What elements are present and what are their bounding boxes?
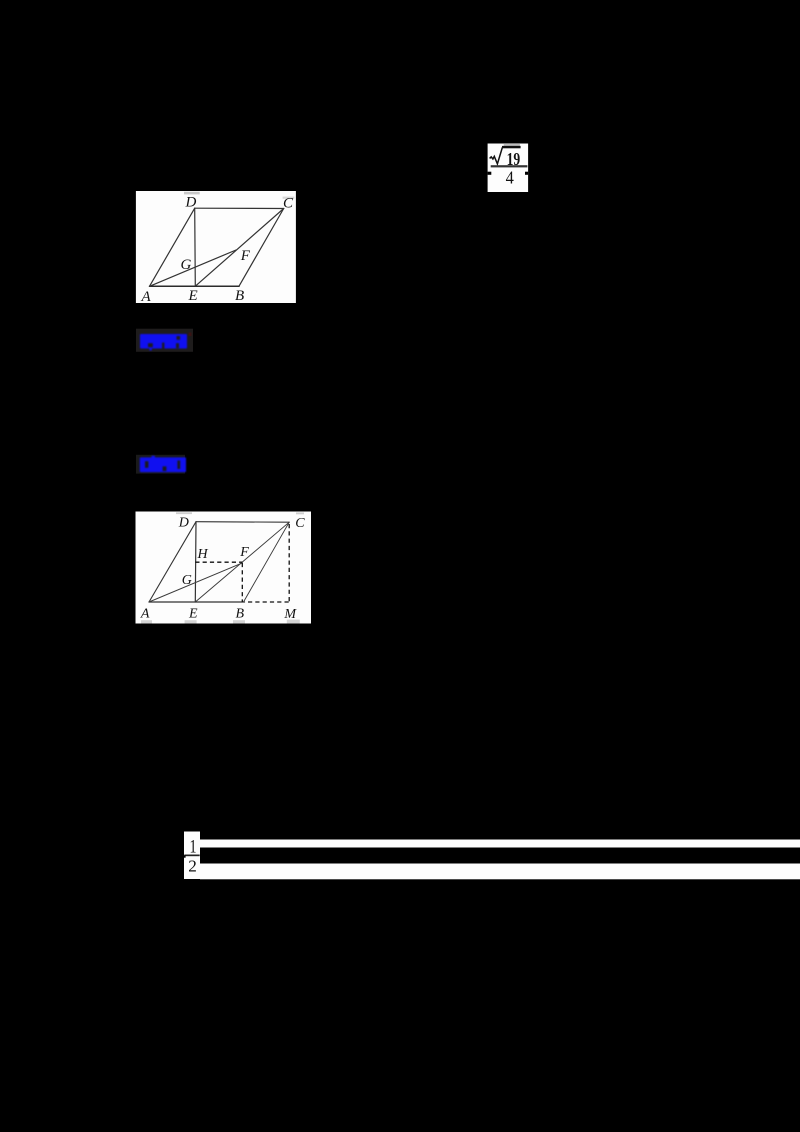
dark strip behind blue tag 1 bbox=[136, 329, 193, 352]
gray smudge below B2 bbox=[233, 620, 245, 623]
dashed FB bbox=[241, 563, 243, 602]
radical check bbox=[490, 147, 503, 164]
blue tag 2 bbox=[136, 455, 186, 474]
segment EC bbox=[195, 209, 283, 287]
side DC bbox=[195, 207, 284, 209]
long top bar bbox=[200, 840, 800, 848]
dark red artifact bbox=[189, 333, 192, 337]
svg-text:C: C bbox=[283, 196, 294, 212]
radical vinculum bbox=[502, 146, 521, 148]
gray strip above vinculum bbox=[504, 144, 520, 146]
blue glyph blob 2 bbox=[140, 456, 186, 472]
blue glyph blob 1 bbox=[140, 334, 187, 350]
white patch 1/2 bbox=[184, 832, 200, 880]
segment AF 2 bbox=[149, 563, 242, 602]
side CB bbox=[239, 209, 284, 287]
svg-text:F: F bbox=[240, 248, 251, 264]
gray smudge above C2 bbox=[296, 512, 304, 514]
gray smudge above D bbox=[184, 192, 200, 195]
svg-text:C: C bbox=[295, 516, 305, 531]
figure 1 white box bbox=[136, 191, 296, 303]
svg-text:G: G bbox=[182, 573, 192, 588]
gray smudge below A2 bbox=[141, 620, 152, 623]
svg-text:F: F bbox=[239, 545, 249, 560]
formula patch sqrt(19)/4 bbox=[488, 144, 528, 193]
segment EC 2 bbox=[195, 522, 289, 602]
long bottom bar bbox=[200, 864, 800, 880]
segment BC 2 bbox=[244, 522, 290, 602]
left notch bbox=[488, 172, 492, 175]
dark strip behind blue tag 2 bbox=[136, 455, 185, 474]
figure 2 white box bbox=[136, 512, 312, 624]
svg-text:A: A bbox=[140, 607, 150, 622]
svg-text:E: E bbox=[188, 288, 198, 304]
dashed CM bbox=[288, 524, 290, 602]
svg-text:E: E bbox=[188, 607, 198, 622]
white patch bbox=[488, 144, 528, 193]
fraction bar 1/2 bbox=[184, 855, 199, 857]
svg-text:B: B bbox=[236, 607, 245, 622]
side AD 2 bbox=[149, 522, 196, 602]
svg-text:D: D bbox=[185, 195, 197, 211]
side AD bbox=[150, 208, 195, 286]
svg-text:1: 1 bbox=[190, 837, 197, 858]
left tick bbox=[184, 855, 186, 857]
dashed BM bbox=[248, 601, 289, 603]
svg-text:4: 4 bbox=[506, 168, 514, 188]
svg-text:B: B bbox=[235, 288, 244, 304]
gray smudge below M2 bbox=[287, 620, 300, 624]
right notch bbox=[525, 172, 528, 175]
fraction 1/2 line bbox=[184, 832, 800, 880]
segment DE bbox=[194, 208, 197, 286]
segment AF bbox=[150, 250, 237, 286]
svg-text:D: D bbox=[178, 516, 189, 531]
side AB 2 bbox=[149, 601, 245, 603]
svg-text:M: M bbox=[283, 607, 297, 622]
dashed HF bbox=[195, 561, 242, 563]
gray smudge below E2 bbox=[185, 620, 197, 623]
side AB bbox=[150, 285, 240, 287]
svg-text:2: 2 bbox=[188, 856, 197, 875]
figure 2 bbox=[136, 512, 312, 624]
svg-text:A: A bbox=[141, 289, 152, 305]
svg-text:H: H bbox=[197, 547, 209, 562]
fraction bar bbox=[491, 165, 528, 167]
side DC 2 bbox=[196, 521, 289, 524]
figure 1 bbox=[136, 191, 296, 305]
gray smudge above D2 bbox=[176, 512, 192, 514]
gray smudge above C bbox=[283, 197, 295, 199]
svg-text:G: G bbox=[181, 257, 192, 273]
segment DE 2 bbox=[194, 522, 197, 602]
blue tag 1 bbox=[136, 329, 193, 352]
